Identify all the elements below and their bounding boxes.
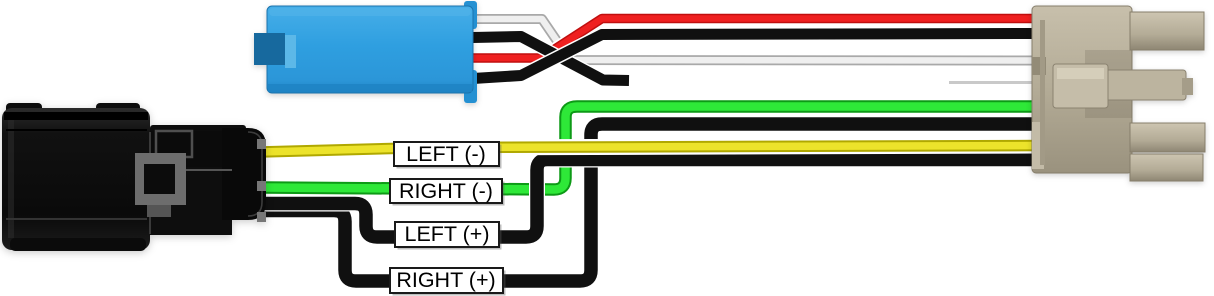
top right bar [1130,12,1204,50]
svg-text:RIGHT (+): RIGHT (+) [396,268,495,292]
right beige connector [1032,6,1205,181]
wire RIGHT(+) black: from connector down at x345, bottom row, riser x591, top run H2 [256,124,1038,281]
label LEFT (-) [394,142,502,169]
bottom right bar [1130,154,1203,181]
wire RIGHT(-) green: row, riser at x565, top run to right connector [263,107,1038,190]
nose lower prong [150,167,232,235]
wire red (from blue box, crosses up in X) [473,19,1038,59]
body [2,108,150,250]
nose top ridge [150,125,246,141]
label RIGHT (-) [390,179,505,206]
mating prong bar [1064,70,1186,100]
label LEFT (+) [395,222,502,250]
blue box left tab [254,33,285,65]
mating prong block [1053,64,1108,108]
svg-text:RIGHT (-): RIGHT (-) [399,179,493,203]
label RIGHT (+) [390,268,506,296]
wire black A (from box top area, crosses down, cut stub) [473,37,629,81]
face nubs at wire exits [257,139,266,149]
gray terminal detail [135,153,186,205]
left black connector [2,103,266,251]
nose tip cap [222,128,266,220]
wire LEFT(-) yellow: straight run left connector to right connector [260,146,1038,153]
main body [1032,6,1132,173]
svg-text:LEFT (-): LEFT (-) [406,142,486,166]
wire black B (from box bottom, crosses up, runs to right connector) [473,34,1038,79]
wire LEFT(+) black: from connector, step down at x366, row, riser x537, run H1 [256,160,1038,238]
svg-text:LEFT (+): LEFT (+) [404,222,489,246]
nose upper prong [150,131,250,168]
thin gray shadow line entering right connector [949,81,1036,84]
wire white (from blue box, crosses down in X) [473,19,1038,61]
middle right bar [1130,123,1205,152]
blue flasher module box [254,1,477,103]
latch bracket [156,131,192,157]
body top bumps [6,103,42,117]
